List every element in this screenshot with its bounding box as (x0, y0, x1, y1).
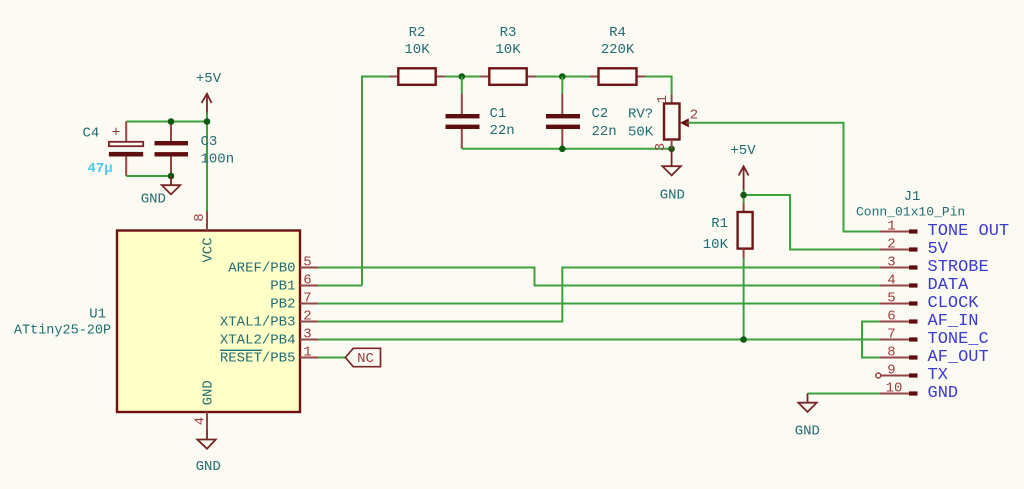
svg-text:7: 7 (887, 326, 895, 342)
svg-text:R2: R2 (409, 25, 426, 41)
wire PB2 to CLOCK (318, 303, 880, 305)
svg-text:+5V: +5V (730, 143, 756, 159)
svg-text:8: 8 (192, 213, 208, 221)
NC flag (345, 348, 380, 367)
junction rail C2 (559, 73, 566, 80)
J1 pin 8 AF_OUT (880, 344, 989, 367)
svg-text:RV?: RV? (628, 107, 653, 123)
wire R1 bottom to TONE_C (743, 258, 745, 339)
pin 2 XTAL1/PB3 (220, 308, 318, 330)
svg-text:1: 1 (303, 344, 311, 360)
svg-text:PB1: PB1 (270, 279, 295, 295)
svg-text:4: 4 (887, 272, 895, 288)
svg-text:R3: R3 (500, 25, 517, 41)
wire XTAL1/PB3 to STROBE (318, 268, 880, 322)
J1 pin 7 TONE_C (880, 326, 989, 349)
svg-text:TONE OUT: TONE OUT (928, 222, 1010, 241)
capacitor C3 (155, 122, 235, 177)
svg-text:R1: R1 (711, 216, 728, 232)
svg-text:2: 2 (690, 108, 698, 124)
capacitor C2 (546, 77, 617, 149)
op-amp U1 body (14, 231, 300, 413)
connector J1 labels (856, 189, 965, 220)
J1 pin 9 TX (876, 362, 948, 385)
svg-text:GND: GND (928, 384, 959, 403)
svg-text:GND: GND (141, 192, 166, 208)
svg-text:1: 1 (655, 95, 671, 103)
ground below RV (660, 149, 685, 204)
svg-text:8: 8 (887, 344, 895, 360)
svg-text:TONE_C: TONE_C (928, 330, 989, 349)
svg-text:10K: 10K (495, 42, 521, 58)
wire C4 bottom (126, 175, 171, 177)
svg-text:C1: C1 (490, 106, 507, 122)
svg-text:GND: GND (660, 188, 685, 204)
svg-text:R4: R4 (609, 25, 626, 41)
svg-text:5: 5 (303, 254, 311, 270)
svg-text:10K: 10K (703, 237, 729, 253)
svg-text:22n: 22n (592, 124, 617, 140)
svg-text:GND: GND (196, 459, 221, 475)
J1 pin 6 AF_IN (880, 308, 979, 331)
svg-text:U1: U1 (89, 307, 106, 323)
resistor R3 (481, 25, 536, 85)
pin 5 AREF/PB0 (228, 254, 318, 276)
junction R1 TONE_C (740, 336, 747, 343)
svg-text:AREF/PB0: AREF/PB0 (228, 261, 295, 277)
svg-text:CLOCK: CLOCK (928, 294, 980, 313)
J1 pin 1 TONE OUT (880, 218, 1009, 241)
svg-text:6: 6 (887, 308, 895, 324)
J1 pin 10 GND (880, 380, 958, 403)
svg-text:50K: 50K (628, 125, 654, 141)
svg-text:TX: TX (928, 366, 948, 385)
power +5V (right) (730, 143, 756, 190)
svg-text:2: 2 (887, 236, 895, 252)
wire AF_IN to AF_OUT (862, 322, 880, 358)
svg-text:RESET/PB5: RESET/PB5 (220, 351, 296, 367)
pin 1 RESET/PB5 (220, 344, 318, 366)
J1 pin 4 DATA (880, 272, 969, 295)
J1 pin 2 5V (880, 236, 949, 259)
svg-text:9: 9 (887, 362, 895, 378)
junction +5V R1 (740, 192, 747, 199)
svg-text:GND: GND (795, 424, 820, 440)
svg-text:10: 10 (886, 380, 903, 396)
svg-text:3: 3 (653, 143, 669, 151)
J1 pin 3 STROBE (880, 254, 989, 277)
pin 4 GND (193, 380, 217, 430)
svg-text:PB2: PB2 (270, 297, 295, 313)
junction C2 bottom (559, 146, 566, 153)
svg-text:1: 1 (887, 218, 895, 234)
junction RV pin3 (668, 146, 675, 153)
svg-text:4: 4 (193, 417, 209, 425)
capacitor C4 (83, 122, 144, 178)
J1 pin 5 CLOCK (880, 290, 979, 313)
ground below C3 (141, 176, 181, 208)
svg-text:220K: 220K (601, 42, 635, 58)
resistor R4 (590, 25, 646, 85)
junction rail C1 (459, 73, 466, 80)
wire bottom rail C1-C2-RV (462, 148, 672, 150)
wire top rail R2-R3-R4 (126, 77, 671, 286)
svg-text:Conn_01x10_Pin: Conn_01x10_Pin (856, 205, 965, 220)
power +5V (left) (196, 71, 222, 113)
svg-text:3: 3 (303, 326, 311, 342)
wire XTAL2/PB4 to TONE_C (318, 339, 880, 341)
pin 6 PB1 (270, 272, 318, 294)
pin 7 PB2 (270, 290, 318, 312)
svg-text:XTAL1/PB3: XTAL1/PB3 (220, 315, 296, 331)
svg-text:AF_IN: AF_IN (928, 312, 979, 331)
svg-text:C2: C2 (592, 106, 609, 122)
svg-text:100n: 100n (201, 152, 235, 168)
svg-text:47µ: 47µ (88, 161, 113, 177)
wire AREF/PB0 to DATA (318, 268, 880, 286)
capacitor C1 (446, 77, 515, 149)
resistor R1 (703, 203, 753, 258)
svg-text:+: + (112, 125, 121, 142)
svg-text:3: 3 (887, 254, 895, 270)
svg-text:XTAL2/PB4: XTAL2/PB4 (220, 333, 296, 349)
wire RV wiper to TONE OUT (689, 123, 880, 232)
svg-text:DATA: DATA (928, 276, 970, 295)
svg-text:5: 5 (887, 290, 895, 306)
ground below U1 (196, 431, 221, 476)
pin 8 VCC (192, 212, 216, 263)
svg-text:C3: C3 (201, 134, 218, 150)
svg-text:C4: C4 (83, 126, 100, 142)
wire +5V to R1 and 5V pin (744, 190, 880, 250)
svg-text:2: 2 (303, 308, 311, 324)
svg-text:VCC: VCC (200, 237, 216, 262)
svg-text:ATtiny25-20P: ATtiny25-20P (14, 324, 111, 339)
junction C3 top (168, 118, 175, 125)
svg-text:AF_OUT: AF_OUT (928, 348, 989, 367)
svg-text:NC: NC (357, 351, 374, 367)
svg-text:STROBE: STROBE (928, 258, 989, 277)
pin 3 XTAL2/PB4 (220, 326, 318, 348)
wire PB1 to rail (318, 285, 362, 287)
wire RESET to NC (318, 357, 345, 359)
svg-text:5V: 5V (928, 240, 949, 259)
svg-text:J1: J1 (904, 189, 921, 205)
svg-text:10K: 10K (404, 42, 430, 58)
junction +5V VCC (204, 118, 211, 125)
potentiometer RV? (628, 95, 698, 152)
svg-text:22n: 22n (490, 123, 515, 139)
resistor R2 (390, 25, 445, 85)
wire GND J1 (808, 393, 881, 395)
ground below J1 (795, 394, 820, 440)
svg-text:+5V: +5V (196, 71, 222, 87)
svg-text:7: 7 (303, 290, 311, 306)
junction C3 bottom (168, 173, 175, 180)
svg-text:6: 6 (303, 272, 311, 288)
svg-text:GND: GND (200, 380, 216, 405)
